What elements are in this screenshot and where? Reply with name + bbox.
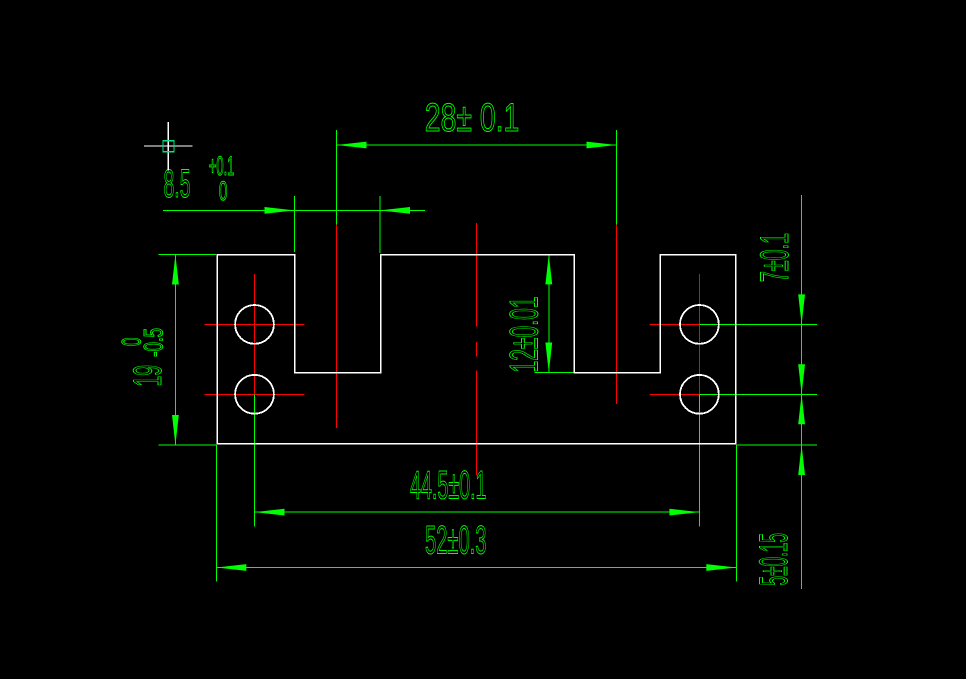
dimension 8.5 arrow left (flipped, points right) <box>265 207 295 214</box>
dimension 52±0.3 extension line left <box>215 445 217 582</box>
dimension 7±0.1 extension line upper (right upper hole) <box>699 323 817 325</box>
svg-text:12±0.01: 12±0.01 <box>503 297 547 373</box>
dimension 8.5 extension line left <box>294 196 296 252</box>
dimension 7 arrow lower (points up to lower hole line) <box>798 394 805 424</box>
dimension 19 line <box>174 255 176 446</box>
svg-text:0: 0 <box>219 176 228 206</box>
dimension 28±0.1 line <box>337 144 617 146</box>
dimension 19 extension line bottom <box>159 444 217 446</box>
svg-text:52±0.3: 52±0.3 <box>425 519 487 563</box>
svg-text:44.5±0.1: 44.5±0.1 <box>410 464 487 508</box>
dimension 44.5±0.1 arrow left <box>255 509 285 516</box>
centerline left holes vertical <box>254 274 256 394</box>
dimension 12±0.01 arrow top <box>545 254 552 284</box>
dimension 12±0.01 arrow bottom <box>545 343 552 373</box>
centerline notch2 vertical red <box>616 225 618 404</box>
dimension 28±0.1 extension line left <box>336 130 338 225</box>
dimension 44.5±0.1 line <box>255 511 700 513</box>
dimension 7±0.1 extension line lower (right lower hole) <box>699 393 817 395</box>
dimension 7/5 shared dim line <box>801 195 803 589</box>
svg-text:-0.5: -0.5 <box>139 328 169 357</box>
centerline left upper hole horizontal <box>205 323 305 325</box>
centerline right lower hole horizontal <box>650 393 700 395</box>
hole lower right <box>680 375 719 414</box>
centerline right holes vertical <box>698 274 700 394</box>
centerline part middle dash-dot red <box>475 223 477 475</box>
hole upper right <box>680 305 719 344</box>
dimension 28±0.1 arrow left <box>337 142 367 149</box>
cursor pickbox <box>163 141 174 152</box>
dimension 5 arrow upper (points down to lower hole line) <box>798 364 805 394</box>
dimension 8.5 extension line right <box>379 196 381 253</box>
dimension 7 arrow upper (points down to upper hole line) <box>798 294 805 324</box>
dimension 5±0.15 extension line bottom edge <box>736 444 817 446</box>
svg-text:8.5: 8.5 <box>164 162 191 206</box>
dimension 12±0.01 line <box>548 254 550 372</box>
dimension 44.5±0.1 extension line right (below right holes) <box>698 394 700 526</box>
dimension 28±0.1 arrow right <box>587 142 617 149</box>
centerline left lower hole horizontal <box>205 393 305 395</box>
dimension 44.5±0.1 extension line left (below left holes) <box>254 394 256 526</box>
dimension 8.5 arrow right (flipped, points left) <box>380 207 410 214</box>
dimension 5 arrow lower (points up to bottom line) <box>798 445 805 475</box>
dimension 52±0.3 line <box>216 567 736 569</box>
cursor crosshair horizontal <box>144 145 193 147</box>
svg-text:7±0.1: 7±0.1 <box>753 233 797 282</box>
dimension 19 extension line top <box>159 254 216 256</box>
centerline notch1 vertical red <box>336 225 338 428</box>
dimension 52±0.3 arrow right <box>706 564 736 571</box>
cursor crosshair vertical <box>167 122 169 171</box>
dimension 44.5±0.1 arrow right <box>669 509 699 516</box>
dimension 52±0.3 extension line right <box>735 445 737 582</box>
dimension 12±0.01 extension line bottom <box>535 372 574 374</box>
hole lower left <box>235 375 274 414</box>
dimension 12±0.01 extension line top <box>535 253 574 255</box>
dimension 52±0.3 arrow left <box>216 564 246 571</box>
svg-text:19: 19 <box>126 365 170 387</box>
dimension 19 arrow top <box>172 255 179 285</box>
part outline <box>217 255 736 444</box>
hole upper left <box>235 305 274 344</box>
dimension 19 arrow bottom <box>172 415 179 445</box>
svg-text:28± 0.1: 28± 0.1 <box>425 96 520 140</box>
svg-text:5±0.15: 5±0.15 <box>752 533 796 586</box>
dimension 28±0.1 extension line right <box>616 130 618 225</box>
centerline right upper hole horizontal <box>650 323 700 325</box>
dimension 8.5 line <box>163 209 425 211</box>
